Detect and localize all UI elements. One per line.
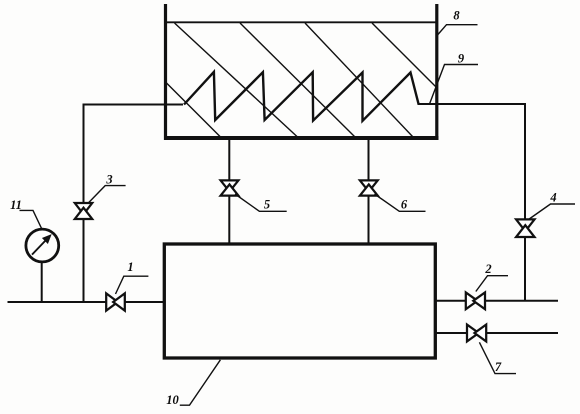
- vessel 10 body: [164, 244, 435, 358]
- right down pipe to valve 4: [524, 104, 526, 301]
- svg-text:1: 1: [127, 260, 133, 274]
- valve 5: [221, 180, 239, 195]
- gauge riser pipe: [41, 262, 43, 302]
- label 5 leader: [235, 194, 287, 211]
- label 4 leader: [529, 204, 576, 220]
- tank 8 left wall: [164, 4, 167, 140]
- svg-text:10: 10: [166, 393, 179, 407]
- gauge 11 needle arrow: [32, 235, 51, 255]
- svg-text:6: 6: [401, 197, 408, 211]
- svg-text:9: 9: [458, 52, 465, 66]
- valve 3: [75, 203, 92, 219]
- label 7 leader: [479, 342, 516, 373]
- label 11 leader: [20, 210, 42, 228]
- label 2 leader: [476, 276, 508, 292]
- hatching inside tank 8: [166, 23, 437, 137]
- tank 8 top line: [166, 21, 437, 23]
- valve 6: [360, 180, 378, 195]
- label 9 leader: [430, 65, 479, 105]
- tank 8 bottom wall: [164, 136, 439, 140]
- left riser pipe with valve 3: [83, 104, 85, 303]
- label 10 leader: [180, 360, 221, 405]
- pipe from left riser into tank coil: [84, 104, 184, 106]
- label 1 leader: [116, 276, 149, 294]
- label 8 leader: [438, 25, 478, 35]
- valve 2: [466, 292, 485, 309]
- svg-text:7: 7: [495, 360, 502, 374]
- svg-text:5: 5: [264, 197, 270, 211]
- coil serpentine 9 inside tank: [184, 72, 419, 121]
- svg-text:4: 4: [549, 191, 556, 205]
- riser pipe vessel to tank with valve 5: [228, 139, 230, 244]
- svg-text:11: 11: [10, 198, 22, 212]
- label 6 leader: [375, 194, 426, 211]
- valve 1: [106, 293, 125, 310]
- label 3 leader: [88, 186, 126, 204]
- pipe from coil out of tank to right: [418, 103, 527, 105]
- svg-text:8: 8: [453, 9, 460, 23]
- valve 4: [516, 219, 534, 237]
- right outlet pipe with valve 7: [435, 332, 558, 334]
- main inlet pipe left: [8, 301, 165, 303]
- tank 8 right wall: [435, 4, 438, 140]
- riser pipe vessel to tank with valve 6: [368, 139, 370, 244]
- right outlet pipe with valve 2: [435, 300, 558, 302]
- svg-text:2: 2: [484, 262, 491, 276]
- svg-text:3: 3: [105, 173, 112, 187]
- gauge 11 body: [26, 229, 59, 262]
- valve 7: [467, 325, 486, 342]
